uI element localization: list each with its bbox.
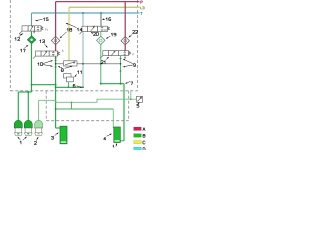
- label 7: [125, 82, 133, 85]
- label T: [141, 12, 143, 14]
- bus L3 yellow horizontal: [69, 6, 140, 8]
- wire yellow drop x69 to box 14: [68, 7, 70, 61]
- junction: [27, 91, 29, 93]
- legend swatch A red: [134, 127, 142, 130]
- wire red drop x125 to shuttle 22: [124, 2, 126, 37]
- port ticks on x55.6 wire: [54, 58, 56, 67]
- label 13: [40, 40, 48, 48]
- label 20: [91, 32, 99, 36]
- valve 13 (3/2 valve middle-left): [33, 51, 60, 59]
- shuttle valve 22: [121, 37, 129, 45]
- label 3: [51, 132, 58, 139]
- label 6: [73, 84, 82, 87]
- label 11: [74, 71, 81, 78]
- bus P red horizontal: [56, 1, 140, 3]
- wire pale green V38.8 to bulb3: [38, 100, 40, 121]
- wire green valve21 bottom down: [120, 56, 122, 84]
- bus T teal horizontal: [32, 12, 140, 14]
- wire green valve12 to shuttle17: [31, 31, 33, 36]
- label 14: [66, 23, 82, 31]
- sub frame left dashed: [45, 91, 47, 121]
- wire green H109: [56, 108, 114, 110]
- wire pale V113.3 to cylinder B: [112, 109, 114, 128]
- wire red shuttle22 to valve21: [124, 45, 126, 51]
- wire teal drop to valve 12: [31, 13, 33, 26]
- label 9 fork: [123, 59, 136, 68]
- label 17: [21, 45, 29, 52]
- box 8 small component: [64, 74, 72, 78]
- label P: [141, 1, 143, 3]
- wire green H87.3 mid: [56, 86, 84, 88]
- wire red shuttle18 to valve13: [55, 45, 57, 51]
- sub frame right dashed: [128, 91, 130, 121]
- stub to cylinder B left: [112, 127, 115, 129]
- label 18: [60, 28, 72, 38]
- junction V55.6 x H109: [55, 108, 57, 110]
- wire dark H63.8: [56, 63, 121, 65]
- cylinder A green: [60, 126, 67, 144]
- junction x55.6 H87.3: [55, 86, 57, 88]
- suction cup 2: [24, 120, 32, 136]
- designation 3V: [132, 53, 133, 55]
- suction cup 3: [35, 120, 43, 136]
- legend swatch B green: [134, 134, 142, 137]
- junction teal end dot: [82, 86, 84, 88]
- label 19: [106, 33, 116, 39]
- valve 20 (3/2 valve top-right): [80, 26, 110, 34]
- wire green shuttle17 down long: [31, 44, 33, 92]
- wire pale green H100 staggered long: [39, 99, 137, 102]
- exhaust mark valve21: [124, 56, 126, 58]
- valve 12 (3/2 valve top-left): [19, 26, 43, 35]
- designation 1V: [45, 29, 48, 31]
- frame border right dashed: [137, 0, 139, 91]
- shuttle valve 17: [27, 36, 35, 44]
- designation 2A: [62, 50, 63, 52]
- label 12: [15, 33, 23, 40]
- label 8 fork: [58, 66, 73, 72]
- label 15: [35, 18, 48, 21]
- box 11 small component overlapping: [67, 77, 74, 82]
- wire green H83.7 right: [101, 83, 124, 85]
- shuttle valve 19: [97, 36, 105, 44]
- wire green H84.7 left: [32, 84, 56, 86]
- wire drop x101 dark to valve 20: [100, 13, 102, 26]
- suction cup 1: [14, 120, 22, 135]
- valve 21 (3/2 valve right-middle): [100, 51, 130, 59]
- label 16: [102, 18, 111, 21]
- stub into cylinder B right: [120, 140, 124, 142]
- legend swatch D cyan: [134, 147, 142, 150]
- cylinder B green: [114, 127, 121, 143]
- frame border left dashed: [9, 0, 11, 91]
- throttle valve 5: [137, 96, 143, 102]
- junction green x31.5 y84.7: [31, 84, 33, 86]
- box 14 (component under yellow wire): [64, 61, 78, 66]
- ticks on x120.5: [119, 58, 121, 71]
- label 1 fork: [18, 137, 27, 144]
- exhaust mark valve12: [34, 32, 35, 33]
- wire green V71.5: [71, 102, 73, 109]
- junction x55.6 H84.7: [55, 84, 57, 86]
- frame border bottom dashed: [10, 90, 137, 92]
- wire pale V130.8: [130, 91, 132, 99]
- wire green V28.7 to bulb2: [27, 92, 29, 122]
- junction dots H100: [55, 100, 57, 102]
- wire green H92 bulbs: [18, 91, 31, 93]
- legend swatch C yellow: [134, 141, 142, 144]
- label 22: [129, 31, 138, 38]
- junction: [130, 98, 132, 100]
- wire green shuttle19 down to H83.7: [100, 45, 102, 84]
- wire teal drop x83: [82, 13, 84, 87]
- wire green V19 to bulb1: [17, 92, 19, 122]
- label 4: [104, 134, 112, 140]
- label 21: [101, 57, 109, 64]
- junction dots H83.7: [100, 83, 102, 85]
- wire green V124 down to cylinder B bottom: [123, 84, 125, 141]
- wire red drop x55.6 to shuttle 18: [55, 2, 57, 37]
- junction dot teal x101: [100, 12, 102, 14]
- label 5: [137, 102, 140, 107]
- marks under cylinder B: [113, 143, 117, 148]
- stub from box11 to H87.3: [67, 82, 69, 88]
- stub to cylinder A left: [56, 127, 60, 129]
- label 10 fork: [38, 60, 53, 67]
- sub frame bottom dashed: [46, 120, 129, 122]
- label L3: [140, 7, 144, 9]
- wire green valve13 bottom down with ports: [55, 56, 57, 128]
- junction dot teal x83: [82, 12, 84, 14]
- designation 2V: [104, 29, 107, 31]
- label 2: [34, 137, 38, 145]
- shuttle valve 18: [51, 36, 59, 44]
- wire green valve20 to shuttle19: [100, 32, 102, 37]
- junction dots H63.8: [55, 63, 57, 65]
